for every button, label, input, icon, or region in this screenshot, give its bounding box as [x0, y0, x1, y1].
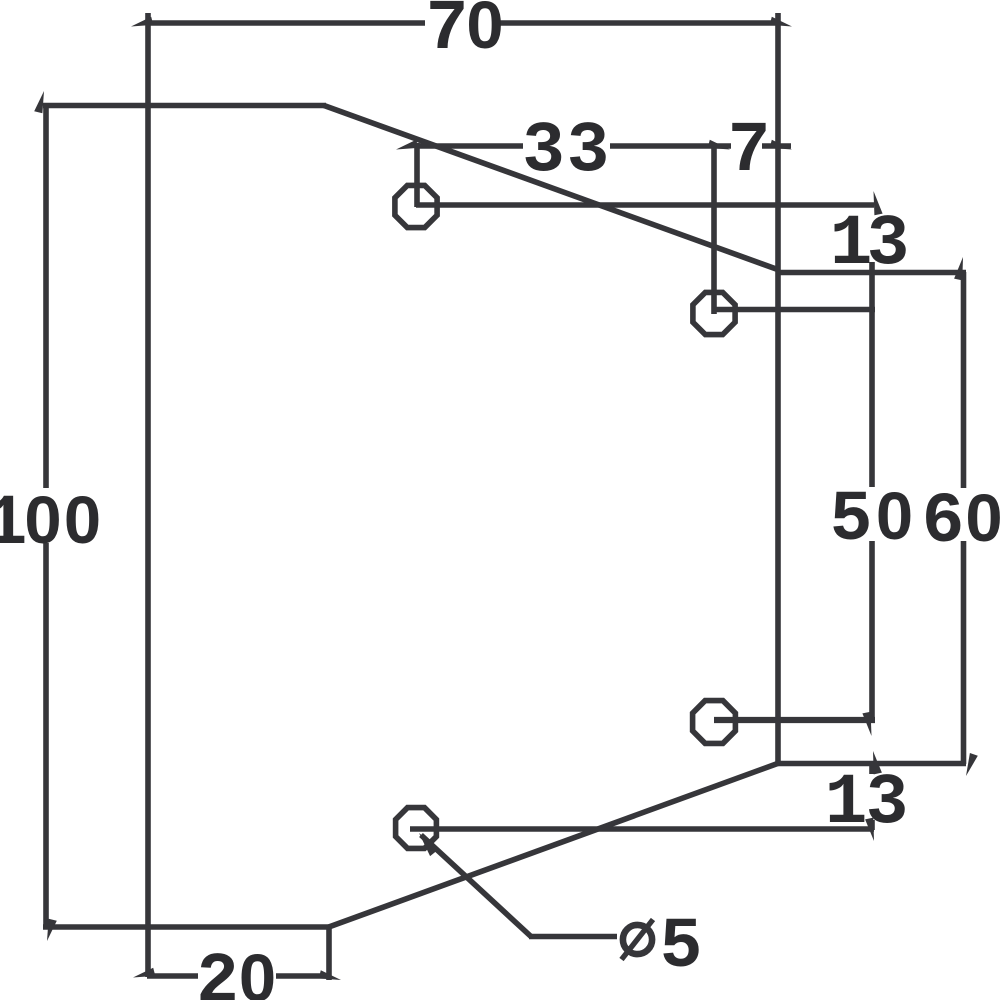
dimension line 33/7 (middle segment): [610, 143, 731, 149]
arrow 13-top up: [874, 191, 883, 215]
svg-text:0: 0: [24, 483, 61, 558]
dimension line 20 (right segment): [276, 973, 329, 979]
svg-text:0: 0: [466, 0, 503, 63]
dimension line 70 (right segment): [500, 20, 778, 26]
arrow 70 left: [131, 17, 153, 27]
dimension line 100 (lower segment): [43, 543, 49, 929]
svg-text:5: 5: [830, 481, 873, 561]
hole 3 centerline to 50-dim: [714, 717, 875, 723]
svg-text:0: 0: [876, 479, 913, 554]
hole 3 (octagon): [693, 701, 736, 744]
dimension line 20 (left segment): [147, 973, 198, 979]
arrow 20 right: [319, 970, 341, 980]
plate top-right diagonal edge: [324, 106, 779, 271]
diameter symbol slash: [622, 920, 654, 960]
hole 1 centerline to 13-dim: [416, 202, 874, 208]
arrow 20 left: [133, 968, 155, 978]
extension line from plate bottom corner down to 20-dim: [326, 927, 332, 980]
arrow 100 top: [34, 91, 44, 113]
arrow 13-bottom up: [873, 751, 882, 774]
dimension line 60 (vertical at x=963.5): [961, 272, 967, 488]
dimension line 33 (left segment): [417, 143, 523, 149]
svg-text:7: 7: [728, 112, 771, 192]
leader arrow at hole 4: [419, 833, 439, 856]
arrow 7 right: [770, 140, 792, 150]
svg-text:3: 3: [522, 112, 565, 192]
arrow 13-bottom down: [865, 818, 874, 841]
dimension line 7 (right segment): [762, 143, 791, 149]
svg-text:0: 0: [64, 483, 101, 558]
hole 1 (octagon): [395, 185, 437, 227]
svg-text:1: 1: [825, 764, 868, 844]
svg-text:5: 5: [660, 908, 703, 988]
arrow 60 top: [954, 257, 963, 280]
arrow 33 right: [708, 140, 730, 150]
svg-text:0: 0: [239, 941, 276, 1000]
svg-text:3: 3: [866, 764, 909, 844]
dimension line 13 bottom (vertical at x=872): [869, 762, 875, 774]
arrow 100 bottom: [47, 919, 57, 941]
arrow 33 left: [396, 140, 418, 150]
hole 2 (octagon): [693, 292, 735, 334]
arrow 60 bottom: [966, 753, 978, 776]
hole 2 centerline to 13/50-dim: [714, 307, 875, 313]
dimension line 70 (left segment): [146, 20, 425, 26]
svg-text:6: 6: [922, 483, 965, 563]
arrow 70 right: [770, 17, 792, 27]
svg-text:3: 3: [867, 205, 910, 285]
plate bottom-right diagonal edge: [326, 763, 779, 928]
arrow 50 bottom: [862, 712, 871, 736]
top-right step extension line to 60-dim: [776, 270, 966, 276]
svg-text:1: 1: [0, 485, 27, 565]
leader line for hole diameter: [421, 835, 531, 937]
plate left edge + extensions to 70-dim and 20-dim: [145, 13, 151, 977]
svg-text:0: 0: [965, 481, 1000, 556]
hole 4 (octagon): [396, 808, 437, 849]
diameter symbol circle: [623, 925, 652, 954]
plate top edge + extension to 100-dim: [43, 103, 326, 109]
plate right edge + extension up to 70-dim: [775, 13, 781, 764]
svg-text:2: 2: [196, 943, 239, 1000]
hole 4 centerline to 13-dim: [410, 826, 874, 832]
dimension line 13 top / 50 (vertical at x=872): [869, 262, 875, 487]
svg-text:7: 7: [426, 0, 469, 70]
svg-text:3: 3: [567, 112, 610, 192]
plate bottom edge + extension to 100-dim: [43, 924, 330, 930]
dimension line 100 (upper segment): [43, 103, 49, 488]
extension line from 7-dim down to hole 2 center: [711, 143, 717, 314]
extension line from 33-dim down to hole 1 center: [414, 143, 420, 207]
bottom-right step extension line to 60-dim: [776, 761, 966, 767]
